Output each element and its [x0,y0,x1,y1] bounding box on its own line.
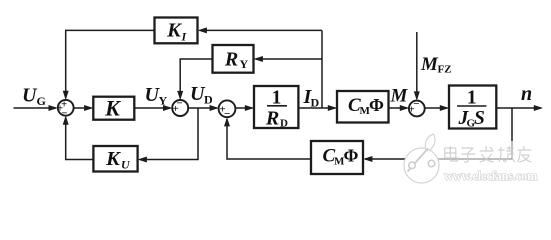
arrowhead into RY right [254,56,263,62]
block KU [93,146,137,172]
wire JGS to n output [497,107,542,109]
block CMphi top [337,91,389,123]
电 [445,146,458,161]
summing junction S3 [219,100,236,117]
arrowhead into KU right [138,157,147,163]
svg-text:n: n [521,83,532,105]
wire U_G input [14,107,57,109]
wire KU output to S1 bottom [66,117,94,159]
svg-text:D: D [204,93,213,107]
svg-text:R: R [265,108,279,130]
svg-text:U: U [121,158,131,172]
wire CMphi to S4 [389,107,408,109]
友 [517,146,531,162]
svg-text:Φ: Φ [344,146,359,166]
arrowhead into S1 bottom (from KU) [63,116,69,125]
wire S4 to JGS block [425,107,448,109]
arrowhead into CMphi top left [328,105,337,111]
烧 [498,146,515,162]
子 [461,148,475,162]
svg-text:R: R [224,49,238,71]
wire KI feedback top: vertical riser from ID node [321,30,323,108]
arrowhead into KI right [198,27,207,33]
block RY [213,45,254,73]
wire MFZ disturbance input [416,32,418,99]
svg-text:D: D [311,96,320,110]
svg-text:Y: Y [240,57,249,71]
arrowhead into JGS left [440,105,449,111]
summing junction S2 [172,100,188,116]
wire KI feedback horizontal [200,29,323,31]
svg-text:K: K [105,148,121,170]
summing junction S4 [409,101,425,117]
svg-text:K: K [104,96,121,121]
wire S1 to K [74,107,92,109]
watermark text 电子发烧友 (drawn strokes, no CJK font) [445,146,531,162]
arrowhead into S4 top (MFZ) [414,91,420,100]
block KI [155,18,198,44]
svg-text:FZ: FZ [438,64,452,76]
svg-text:−: − [61,108,67,120]
watermark overlay lightening wires under text [437,141,549,186]
wire RD to CMphi [299,107,336,109]
arrowhead n output end [534,105,543,111]
wire RY output to S2 top [180,59,212,98]
svg-text:www.elecfans.com: www.elecfans.com [444,169,538,183]
svg-text:Y: Y [159,94,168,108]
arrowhead into S4 left [400,105,409,111]
svg-text:+: + [172,103,178,115]
wire CMphi bottom output to S3 bottom [227,119,311,159]
arrowhead into S2 left [163,105,172,111]
wire RY feedback horizontal [256,58,323,60]
block CMphi bottom [311,141,363,174]
arrowhead into S2 top (from RY) [177,91,183,100]
block K [93,97,134,120]
arrowhead into S3 left [210,105,219,111]
arrowhead into CMphi bottom right [363,156,372,162]
svg-text:M: M [420,54,439,75]
watermark logo: elecfans plug circle [404,134,439,183]
svg-text:−: − [224,108,230,120]
svg-text:D: D [280,118,288,130]
svg-text:Φ: Φ [369,95,384,115]
block 1/RD [254,86,298,128]
发 [480,146,494,162]
wire S3 to RD block [236,107,253,109]
svg-text:K: K [166,20,182,42]
arrowhead into S3 bottom (from CMphi bottom) [224,117,230,126]
wire KI output to S1 top [66,30,155,98]
svg-text:G: G [37,94,46,108]
wire K to S2 [135,107,171,109]
arrowhead into S1 top (from KI) [63,91,69,100]
arrowhead into K left [84,105,93,111]
wire UD tap down to KU [140,108,199,160]
svg-text:+: + [408,104,414,116]
wire S2 to S3 [188,107,217,109]
arrowhead into S1 left [49,105,58,111]
svg-text:S: S [474,108,485,129]
arrowhead into RD block left [245,105,254,111]
svg-text:M: M [390,86,409,107]
block JGS [449,86,496,129]
summing junction S1 [58,100,74,116]
wire n tap down to CMphi bottom [365,108,512,159]
